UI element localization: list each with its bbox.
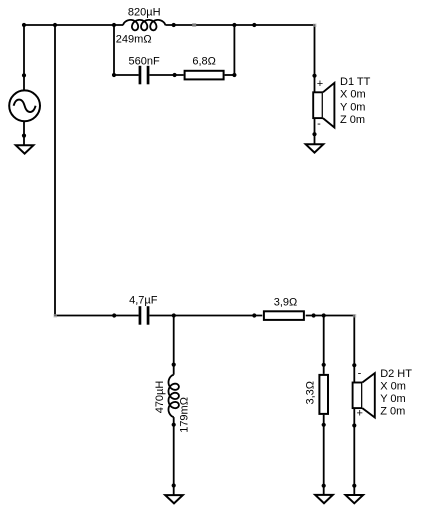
wire D2 bottom to ground — [353, 408, 355, 495]
AC source top pin dot — [22, 73, 26, 77]
wire cap row: left node to C1 — [114, 74, 139, 76]
wire top bus left (source top to coil) — [24, 24, 123, 26]
resistor R2 3,9Ω body — [264, 311, 304, 320]
gray corner marker bottom-right — [353, 314, 357, 318]
node dot: wire segment end on top bus — [252, 23, 256, 27]
ground below D2 — [346, 495, 364, 503]
gray corner marker top-right — [313, 24, 317, 28]
ground below R3 — [315, 495, 333, 503]
svg-text:179mΩ: 179mΩ — [179, 397, 191, 433]
svg-text:-: - — [317, 118, 321, 130]
capacitor C2 4,7µF left plate — [139, 306, 142, 325]
wire L2 bottom to ground — [173, 417, 175, 495]
node dot: source top corner — [22, 23, 26, 27]
svg-text:470µH: 470µH — [154, 381, 166, 414]
svg-text:560nF: 560nF — [128, 55, 159, 67]
svg-text:3,3Ω: 3,3Ω — [304, 381, 316, 405]
ground below D1 — [306, 144, 324, 152]
AC source bottom pin dot — [22, 134, 26, 138]
AC source V1 circle — [9, 90, 40, 121]
resistor R3 3,3Ω body — [319, 375, 328, 414]
wire R3 bottom to ground — [323, 415, 325, 495]
svg-text:249mΩ: 249mΩ — [116, 33, 152, 45]
speaker D2 horn — [362, 373, 375, 417]
svg-text:D2 HT: D2 HT — [380, 368, 412, 380]
node dot: L2 bottom terminal — [172, 423, 176, 427]
svg-text:820µH: 820µH — [128, 6, 161, 18]
wire cap row: R1 to right vertical — [225, 74, 235, 76]
AC source V1 sine wave — [14, 100, 36, 112]
node dot: L1 right terminal — [172, 23, 176, 27]
node dot: junction of parallel right vertical on top bus — [232, 23, 236, 27]
gray wire-segment marker on top bus — [192, 23, 196, 27]
gray corner marker bottom-left — [54, 314, 58, 318]
speaker D2 body rectangle — [353, 383, 362, 409]
svg-text:X 0m: X 0m — [340, 89, 366, 101]
inductor L1 820µH coil — [123, 20, 165, 30]
ground below source — [16, 145, 34, 153]
node dot: R3 bottom terminal — [322, 423, 326, 427]
svg-text:3,9Ω: 3,9Ω — [274, 296, 298, 308]
node dot: R2 right terminal — [312, 313, 316, 317]
svg-text:Y 0m: Y 0m — [380, 393, 405, 405]
svg-text:6,8Ω: 6,8Ω — [192, 55, 216, 67]
speaker D1 body rectangle — [313, 92, 322, 118]
svg-text:+: + — [356, 407, 362, 419]
node dot: C1 left terminal — [112, 73, 116, 77]
svg-text:4,7µF: 4,7µF — [129, 294, 158, 306]
wire bottom bus: R2 to corner, down to D2 — [306, 316, 355, 383]
node dot: D2 bottom terminal — [352, 423, 356, 427]
node dot: R3 top terminal — [322, 363, 326, 367]
node dot: L2 top terminal — [172, 363, 176, 367]
svg-text:X 0m: X 0m — [380, 381, 406, 393]
wire R3 branch top pin — [323, 316, 325, 374]
node dot: C2/L2 junction on bottom bus — [172, 313, 176, 317]
wire bottom bus: C2 to R2 — [150, 315, 263, 317]
node dot: D1 bottom terminal — [312, 132, 316, 136]
wire source bottom pin to ground — [23, 121, 25, 145]
node dot: R3 tee junction on bottom bus — [322, 313, 326, 317]
wire parallel-branch left vertical — [113, 25, 115, 75]
resistor R1 6,8Ω body — [185, 71, 224, 80]
svg-text:+: + — [317, 78, 323, 90]
svg-text:Y 0m: Y 0m — [340, 101, 365, 113]
wire top bus right (coil to top-right corner, then down to D1) — [165, 25, 314, 76]
capacitor C2 4,7µF right plate — [147, 306, 150, 325]
wire long left vertical (top bus to bottom bus) — [55, 25, 139, 316]
wire L2 branch top pin — [173, 316, 175, 375]
node dot: long vertical tee on top bus — [53, 23, 57, 27]
node dot: C1/R1 junction — [173, 73, 177, 77]
node dot: R1 right terminal — [232, 73, 236, 77]
speaker D1 horn — [323, 83, 335, 128]
ground below L2 — [165, 495, 183, 503]
svg-text:D1 TT: D1 TT — [340, 76, 371, 88]
wire source vertical drop — [23, 25, 25, 91]
inductor L2 470µH coil — [169, 375, 179, 417]
node dot: R3 ground wire end — [322, 484, 326, 488]
capacitor C1 560nF right plate — [147, 66, 150, 85]
node dot: R2 left terminal — [252, 313, 256, 317]
svg-text:Z 0m: Z 0m — [340, 114, 365, 126]
wire D1 bottom pin to ground — [314, 118, 316, 144]
wire parallel-branch right vertical — [233, 25, 235, 75]
wire cap row: C1 to R1 — [150, 74, 184, 76]
node dot: D1 top terminal — [312, 74, 316, 78]
svg-text:-: - — [358, 368, 362, 380]
node dot: bottom bus left segment end — [112, 313, 116, 317]
node dot: D2 ground wire end — [352, 484, 356, 488]
wire D1 top pin — [314, 76, 316, 93]
node dot: L1 left terminal / parallel left top — [112, 23, 116, 27]
node dot: L2 ground wire end — [172, 483, 176, 487]
svg-text:Z 0m: Z 0m — [380, 406, 405, 418]
capacitor C1 560nF left plate — [139, 66, 142, 85]
node dot: D2 top terminal — [352, 363, 356, 367]
